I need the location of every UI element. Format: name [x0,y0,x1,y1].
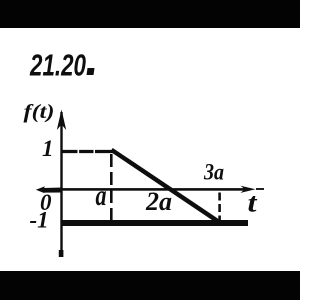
y-axis [60,112,62,256]
x-axis left thick bar with left arrowhead [36,186,63,193]
svg-text:-1: -1 [30,208,49,233]
scan nick in step line [78,150,80,154]
svg-text:21.20: 21.20 [29,48,86,83]
x-axis right arrowhead [241,186,256,193]
dashed vertical at t=3a [218,193,221,221]
bottom black band [0,271,300,300]
function ramp from (a,1) to (3a,-1) [112,150,218,221]
y-axis bottom ink blob [59,250,64,257]
function step at +1 from 0 to a [62,150,114,153]
dashed vertical at t=a [110,154,113,224]
y-axis arrowhead [57,110,66,131]
svg-text:2a: 2a [145,187,172,216]
svg-text:3a: 3a [203,160,224,185]
svg-text:1: 1 [42,136,54,161]
top black band [0,0,300,28]
svg-text:a: a [96,179,107,212]
svg-text:f(t): f(t) [24,101,55,123]
scan nick in step line 2 [94,150,96,154]
x-axis [44,188,248,191]
x-axis ink smear right of arrow [256,188,264,190]
title period dot [87,68,95,75]
function level at -1 [61,220,248,226]
